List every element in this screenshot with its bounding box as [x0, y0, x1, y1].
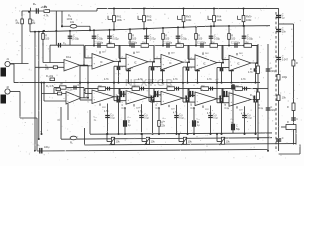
svg-text:100k: 100k [246, 19, 252, 22]
svg-text:IC: IC [169, 62, 172, 65]
svg-text:220p: 220p [271, 109, 277, 112]
svg-text:1M: 1M [60, 84, 63, 86]
svg-text:1M: 1M [108, 42, 111, 45]
svg-text:R: R [250, 94, 252, 97]
svg-text:0.02μ: 0.02μ [181, 38, 188, 41]
svg-text:0.1μ: 0.1μ [144, 118, 149, 120]
svg-text:10n: 10n [282, 30, 287, 33]
svg-text:0.02μ: 0.02μ [97, 38, 104, 41]
svg-text:1M: 1M [98, 85, 101, 88]
svg-text:C₁₃: C₁₃ [110, 115, 113, 117]
svg-text:0.1μ: 0.1μ [156, 108, 161, 110]
svg-text:C₁₃: C₁₃ [144, 115, 147, 117]
svg-text:C₁₃: C₁₃ [247, 115, 250, 117]
svg-text:100k: 100k [117, 19, 123, 22]
svg-text:0.1μ: 0.1μ [122, 108, 127, 110]
svg-text:0.047: 0.047 [282, 59, 289, 62]
svg-text:IC: IC [100, 61, 103, 64]
svg-text:100μ: 100μ [44, 146, 50, 149]
svg-text:4.7k: 4.7k [44, 13, 50, 17]
svg-text:4.7k: 4.7k [207, 78, 212, 81]
svg-text:100: 100 [198, 38, 203, 41]
svg-text:C 2000p: C 2000p [197, 42, 207, 45]
svg-text:1M: 1M [142, 42, 145, 45]
svg-text:24V: 24V [239, 53, 243, 55]
svg-text:C₁₂: C₁₂ [128, 117, 131, 119]
svg-text:C₄: C₄ [63, 42, 66, 45]
svg-text:IC1b: IC1b [68, 90, 74, 92]
svg-text:1M: 1M [235, 85, 238, 88]
svg-text:0.1μ: 0.1μ [110, 118, 115, 120]
svg-text:IC1a: IC1a [66, 57, 72, 59]
svg-text:24V: 24V [205, 53, 209, 55]
svg-text:C 2000p: C 2000p [128, 42, 138, 45]
svg-text:12V: 12V [205, 109, 209, 111]
svg-text:56μ: 56μ [236, 128, 241, 131]
svg-text:C: C [282, 137, 284, 140]
svg-text:1M: 1M [211, 42, 214, 45]
svg-text:0.1μ: 0.1μ [225, 108, 230, 110]
svg-text:R₆ 4.7k: R₆ 4.7k [46, 85, 55, 88]
svg-text:0.02μ: 0.02μ [214, 38, 221, 41]
svg-text:100k: 100k [217, 19, 223, 22]
svg-text:0.1μ: 0.1μ [179, 118, 184, 120]
svg-text:0.1μ: 0.1μ [191, 108, 196, 110]
svg-text:100k: 100k [147, 19, 153, 22]
svg-text:0.02μ: 0.02μ [73, 38, 80, 41]
svg-text:0.1μ: 0.1μ [259, 108, 264, 110]
svg-text:220p: 220p [271, 70, 277, 73]
svg-text:R₃: R₃ [44, 5, 47, 9]
svg-text:C₁₃: C₁₃ [213, 115, 216, 117]
svg-text:NEXT.GR: NEXT.GR [125, 77, 173, 89]
svg-text:24V: 24V [102, 52, 106, 54]
svg-text:100k: 100k [282, 76, 288, 79]
svg-text:C₁₃: C₁₃ [179, 115, 182, 117]
svg-text:0.1μ: 0.1μ [213, 118, 218, 120]
svg-text:100: 100 [45, 38, 50, 41]
svg-text:C 2000p: C 2000p [94, 42, 104, 45]
svg-text:0.1μ: 0.1μ [247, 118, 252, 120]
svg-text:0.02μ: 0.02μ [247, 38, 254, 41]
svg-text:4.7k: 4.7k [104, 78, 109, 81]
svg-text:IC: IC [134, 62, 137, 65]
svg-text:1M: 1M [201, 85, 204, 88]
svg-text:12V: 12V [102, 107, 106, 109]
svg-text:4.7k: 4.7k [241, 78, 246, 81]
svg-text:1M: 1M [32, 22, 35, 25]
svg-text:0.02μ: 0.02μ [113, 38, 120, 41]
svg-text:R: R [287, 121, 289, 124]
svg-text:R: R [296, 62, 298, 65]
svg-text:100: 100 [165, 38, 170, 41]
svg-text:100k: 100k [186, 19, 192, 22]
svg-text:IC: IC [237, 63, 240, 66]
svg-text:C 2000p: C 2000p [231, 42, 241, 45]
svg-text:C 2000p: C 2000p [163, 42, 173, 45]
svg-text:24V: 24V [136, 52, 140, 54]
svg-text:12V: 12V [239, 110, 243, 112]
svg-text:24V: 24V [171, 52, 175, 54]
svg-text:12V: 12V [171, 108, 175, 110]
svg-text:100: 100 [132, 38, 137, 41]
svg-text:R₇ 22k: R₇ 22k [46, 75, 54, 78]
svg-text:C₁₂: C₁₂ [94, 117, 97, 119]
svg-text:1M: 1M [177, 42, 180, 45]
svg-text:4.7k: 4.7k [248, 71, 253, 74]
svg-text:12V: 12V [136, 108, 140, 110]
svg-text:C₁₂: C₁₂ [197, 119, 200, 121]
svg-text:4.7k: 4.7k [173, 78, 178, 81]
svg-text:IC: IC [203, 62, 206, 65]
